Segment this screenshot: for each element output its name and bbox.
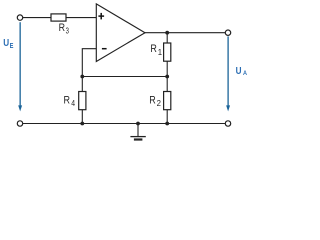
wire: op-amp output to output terminal [145,32,225,34]
svg-text:R: R [150,43,157,55]
svg-text:E: E [10,41,14,50]
svg-text:R: R [59,22,66,34]
resistor R2 [164,92,171,110]
svg-text:2: 2 [157,99,161,108]
resistor R3 [51,14,66,21]
voltage arrow U_A [226,36,230,111]
svg-text:4: 4 [71,99,75,108]
wire: R4 to ground rail [81,110,83,124]
wire: input terminal to R3 [23,17,51,19]
wire: R1 to feedback node [166,61,168,76]
voltage arrow U_E [18,22,22,111]
op-amp inverting input marker (-) [102,48,107,50]
wire: feedback node down to R2 [166,77,168,92]
svg-text:A: A [243,70,247,77]
resistor R4 [79,92,86,110]
input terminal (top left) [17,15,22,20]
wire: R2 to ground rail [166,110,168,124]
wire: output node down to R1 [166,33,168,43]
wire: op-amp inverting input to feedback corner [82,49,96,77]
op-amp non-inverting input marker (+) [98,13,104,20]
wire: feedback line from inverting node to R1/R2 node [82,76,167,78]
node: R4 at ground rail [80,122,84,126]
node: feedback junction at R1/R2 [165,75,169,79]
svg-text:3: 3 [66,27,69,36]
wire: ground rail [23,123,226,125]
node: inverting feedback junction [80,75,84,79]
svg-text:U: U [3,38,9,49]
svg-text:U: U [236,66,242,77]
ground symbol [130,137,145,140]
wire: ground stub [137,124,139,137]
op-amp U1 [96,4,145,62]
node: ground tap on rail [136,122,140,126]
resistor R1 [164,43,171,61]
svg-text:R: R [64,94,71,106]
wire: R3 to op-amp + input [66,17,96,19]
terminal (bottom right) [225,121,230,126]
svg-text:R: R [149,94,156,106]
node: output junction [165,31,169,35]
wire: inverting node down to R4 [81,77,83,92]
terminal (bottom left) [17,121,22,126]
svg-text:1: 1 [158,48,162,57]
node: R2 at ground rail [165,122,169,126]
output terminal (top right) [225,30,230,35]
